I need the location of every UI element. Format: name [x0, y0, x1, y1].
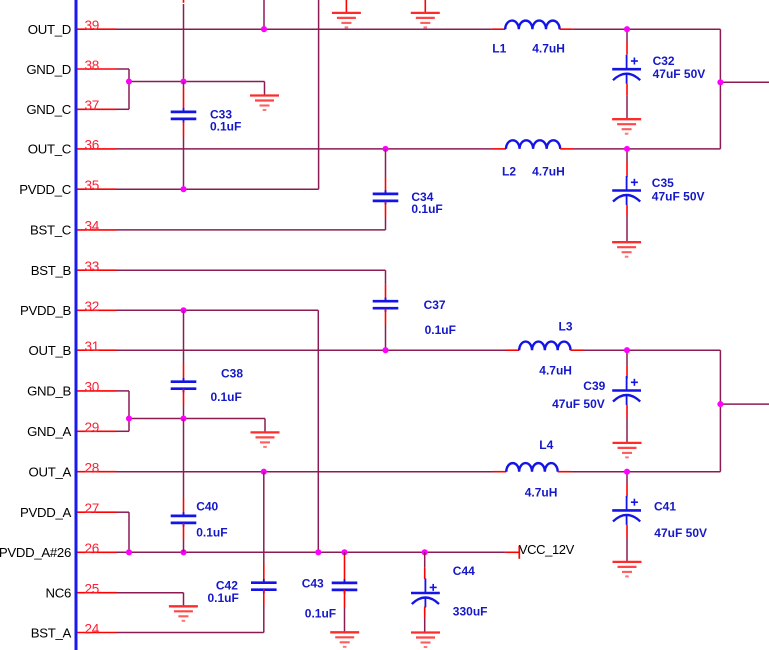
svg-text:47uF 50V: 47uF 50V: [552, 397, 605, 411]
capacitor C41 branch wire: [626, 472, 628, 484]
svg-text:OUT_D: OUT_D: [28, 22, 71, 37]
ground (GND_B/GND_A): [251, 432, 280, 447]
wire off-page tap (speaker -): [720, 403, 769, 405]
ground (NC6): [169, 606, 198, 621]
wire right bus OUT_B/OUT_A junction vertical: [719, 350, 721, 472]
wire pin38 corner: [117, 68, 130, 70]
pin 32 lead (PVDD_B): [78, 309, 117, 311]
wire PVDD_C row: [117, 188, 319, 190]
svg-text:PVDD_A#26: PVDD_A#26: [0, 545, 71, 560]
pin 33 lead (BST_B): [78, 269, 117, 271]
svg-text:BST_A: BST_A: [31, 625, 72, 640]
svg-text:GND_C: GND_C: [26, 102, 71, 117]
svg-text:PVDD_B: PVDD_B: [20, 303, 71, 318]
svg-text:35: 35: [85, 178, 100, 193]
svg-text:L2: L2: [502, 164, 516, 178]
capacitor C33 lower stub: [183, 122, 185, 137]
svg-text:28: 28: [85, 461, 100, 476]
junction at right tap: [717, 79, 723, 85]
svg-text:0.1uF: 0.1uF: [411, 202, 442, 216]
svg-text:31: 31: [85, 339, 100, 354]
inductor L1 left lead: [492, 28, 505, 30]
inductor L4 left lead: [493, 471, 506, 473]
svg-text:0.1uF: 0.1uF: [210, 120, 241, 134]
junction PVDD_C / C33: [180, 186, 186, 192]
svg-text:4.7uH: 4.7uH: [525, 485, 558, 499]
capacitor C38 lower stub: [183, 389, 185, 406]
svg-text:C32: C32: [653, 54, 675, 68]
svg-text:L1: L1: [492, 42, 506, 56]
junction GND row2 at corner column: [126, 415, 132, 421]
wire GND row (38/37 junction): [129, 81, 265, 83]
wire OUT_C row to L2: [117, 148, 493, 150]
svg-text:GND_D: GND_D: [26, 62, 71, 77]
junction OUT_C / C35: [624, 146, 630, 152]
svg-text:47uF 50V: 47uF 50V: [654, 526, 707, 540]
svg-text:C41: C41: [654, 499, 676, 513]
capacitor C38: [171, 378, 197, 392]
wire L1 out to C32 node: [573, 28, 721, 30]
wire BST_A row: [117, 632, 264, 634]
wire PVDD_C top vertical (to off-page): [318, 0, 320, 189]
ground (C39): [613, 443, 642, 458]
wire OUT_B row to L3: [117, 349, 507, 351]
C35 lower stub: [626, 205, 628, 216]
pin 35 lead (PVDD_C): [78, 188, 117, 190]
capacitor C39 (polarized): [612, 376, 641, 405]
junction PVDD_B / C38: [180, 307, 186, 313]
inductor L2: [506, 140, 560, 149]
ground (C32): [612, 119, 641, 134]
capacitor C44 (polarized): [411, 579, 440, 608]
inductor L4 right lead: [558, 471, 571, 473]
svg-text:GND_B: GND_B: [27, 384, 71, 399]
red stub tip of GND top vertical: [183, 0, 185, 3]
wire L3 out to C39 node: [584, 349, 721, 351]
svg-text:C38: C38: [221, 367, 243, 381]
inductor L1 right lead: [560, 28, 573, 30]
svg-text:47uF 50V: 47uF 50V: [652, 189, 705, 203]
wire OUT_D top vertical (to off-page bootstrap): [263, 0, 265, 29]
pin 31 lead (OUT_B): [78, 349, 117, 351]
svg-text:L3: L3: [559, 320, 573, 334]
junction OUT_D / top vertical: [261, 26, 267, 32]
wire GND net top vertical (to off-page): [183, 4, 185, 82]
svg-text:C35: C35: [652, 176, 674, 190]
svg-text:34: 34: [85, 219, 100, 234]
capacitor C35 branch wire: [626, 149, 628, 162]
inductor L2 right lead: [560, 148, 573, 150]
svg-text:24: 24: [85, 621, 100, 636]
wire L2 out to C35 node: [574, 148, 721, 150]
wire NC6 drop: [183, 593, 185, 606]
capacitor C38 upper stub: [183, 310, 185, 364]
capacitor C32 branch wire: [626, 29, 628, 42]
capacitor C33 upper stub: [183, 82, 185, 89]
svg-text:330uF: 330uF: [453, 605, 488, 619]
capacitor C42 lower stub: [263, 589, 265, 606]
svg-text:BST_C: BST_C: [30, 223, 72, 238]
wire pin29 corner: [117, 430, 130, 432]
capacitor C42 upper stub: [263, 472, 265, 564]
svg-text:0.1uF: 0.1uF: [208, 591, 239, 605]
inductor L3: [519, 342, 570, 351]
pin 26 lead (PVDD_A#26): [78, 551, 117, 553]
wire right bus OUT_D/OUT_C junction vertical: [719, 29, 721, 149]
svg-text:GND_A: GND_A: [27, 424, 71, 439]
ground (top-right, off-page stub): [424, 0, 426, 13]
wire PVDD_B row: [117, 309, 319, 311]
svg-text:4.7uH: 4.7uH: [539, 363, 572, 377]
capacitor C39 branch wire: [626, 350, 628, 366]
junction at right lower tap: [717, 401, 723, 407]
svg-text:C39: C39: [583, 379, 605, 393]
capacitor C41 (polarized): [612, 496, 641, 525]
svg-text:4.7uH: 4.7uH: [532, 164, 565, 178]
wire PVDD_A#26 row (VCC_12V net): [117, 551, 506, 553]
ground (C43): [330, 632, 359, 647]
svg-text:33: 33: [85, 259, 100, 274]
wire GND drop to ground: [264, 82, 266, 95]
svg-text:VCC_12V: VCC_12V: [519, 542, 575, 557]
svg-text:37: 37: [85, 98, 100, 113]
junction OUT_C / C34: [382, 146, 388, 152]
svg-text:0.1uF: 0.1uF: [196, 526, 227, 540]
C44 lower stub: [424, 607, 426, 619]
wire OUT_A row to L4: [117, 471, 494, 473]
ground (GND_D/GND_C): [250, 96, 279, 111]
wire NC6 row: [117, 592, 184, 594]
svg-text:0.1uF: 0.1uF: [425, 323, 456, 337]
inductor L2 left lead: [493, 148, 507, 150]
capacitor C34 lower stub: [385, 201, 387, 217]
pin 36 lead (OUT_C): [78, 148, 117, 150]
C39 lower stub: [626, 405, 628, 417]
wire pin37 corner: [117, 108, 130, 110]
capacitor C44 branch wire: [424, 552, 426, 567]
junction GND row2 at C38/C40 column: [180, 415, 186, 421]
C32 lower stub: [626, 84, 628, 96]
svg-text:PVDD_A: PVDD_A: [20, 505, 71, 520]
VCC_12V port bar: [518, 546, 520, 559]
svg-text:C37: C37: [424, 298, 446, 312]
junction OUT_A / C41: [624, 469, 630, 475]
pin 39 lead (OUT_D): [78, 28, 117, 30]
svg-text:OUT_C: OUT_C: [28, 142, 72, 157]
svg-text:29: 29: [85, 420, 100, 435]
svg-text:27: 27: [85, 501, 100, 516]
svg-text:36: 36: [85, 138, 100, 153]
svg-text:OUT_A: OUT_A: [29, 465, 72, 480]
svg-text:NC6: NC6: [46, 586, 71, 601]
C41 lower stub: [626, 525, 628, 537]
capacitor C37 lower stub: [385, 309, 387, 325]
capacitor C34 upper stub: [385, 149, 387, 177]
capacitor C34: [373, 190, 399, 204]
wire GND row 2 (30/29 junction): [129, 418, 265, 420]
pin 37 lead (GND_C): [78, 108, 117, 110]
svg-text:32: 32: [85, 299, 100, 314]
wire GND drop 2: [264, 419, 266, 432]
svg-text:PVDD_C: PVDD_C: [19, 182, 71, 197]
inductor L1: [505, 21, 559, 30]
capacitor C40 upper stub: [183, 419, 185, 499]
capacitor C37 upper stub: [385, 270, 387, 284]
junction OUT_D / C32: [624, 26, 630, 32]
wire L4 out to C41 node: [571, 471, 720, 473]
capacitor C43 lower stub: [344, 590, 346, 607]
svg-text:25: 25: [85, 582, 100, 597]
svg-text:4.7uH: 4.7uH: [532, 42, 565, 56]
capacitor C32 (polarized): [612, 55, 641, 84]
junction VCC row / C44: [422, 549, 428, 555]
inductor L3 left lead: [506, 349, 519, 351]
ground (C44): [411, 633, 440, 648]
pin 34 lead (BST_C): [78, 229, 117, 231]
junction GND row at C33 column: [180, 78, 186, 84]
junction VCC row / pin27 column: [126, 549, 132, 555]
pin 25 lead (NC6): [78, 592, 117, 594]
capacitor C33: [171, 108, 197, 122]
pin 38 lead (GND_D): [78, 68, 117, 70]
pin 27 lead (PVDD_A): [78, 511, 117, 513]
ground (C41): [613, 562, 642, 577]
junction OUT_B / C37: [382, 347, 388, 353]
wire PVDD_B vertical to VCC row: [317, 310, 319, 552]
ground (C35): [612, 242, 641, 257]
svg-text:L4: L4: [539, 438, 553, 452]
capacitor C35 (polarized): [612, 176, 641, 205]
wire pin30 corner: [117, 390, 130, 392]
wire BST_B row: [117, 269, 386, 271]
VCC_12V port lead: [505, 551, 519, 553]
capacitor C43: [332, 579, 358, 593]
junction VCC row / C40: [180, 549, 186, 555]
svg-text:0.1uF: 0.1uF: [305, 607, 336, 621]
svg-text:C44: C44: [453, 564, 475, 578]
svg-text:39: 39: [85, 18, 100, 33]
wire off-page tap (speaker +): [720, 81, 769, 83]
pin 29 lead (GND_A): [78, 430, 117, 432]
svg-text:38: 38: [85, 58, 100, 73]
ground (top-left, off-page stub): [345, 0, 347, 13]
svg-text:BST_B: BST_B: [31, 263, 72, 278]
svg-text:47uF 50V: 47uF 50V: [653, 67, 706, 81]
pin 30 lead (GND_B): [78, 390, 117, 392]
wire BST_C row: [117, 229, 386, 231]
capacitor C42: [251, 579, 277, 593]
wire PVDD_A corner: [117, 511, 130, 513]
capacitor C40: [171, 512, 197, 526]
svg-text:C40: C40: [196, 500, 218, 514]
junction OUT_B / C39: [624, 347, 630, 353]
svg-text:0.1uF: 0.1uF: [211, 390, 242, 404]
junction VCC row / C43: [341, 549, 347, 555]
pin 28 lead (OUT_A): [78, 471, 117, 473]
junction GND row at corner column: [126, 78, 132, 84]
svg-text:C43: C43: [302, 576, 324, 590]
junction VCC row / PVDD_B vertical: [315, 549, 321, 555]
svg-text:OUT_B: OUT_B: [29, 343, 72, 358]
IC left-edge (U1 amplifier IC boundary): [75, 0, 78, 650]
junction OUT_A / C42: [261, 469, 267, 475]
svg-text:26: 26: [85, 541, 100, 556]
capacitor C40 lower stub: [183, 523, 185, 540]
wire OUT_D row to L1: [117, 28, 492, 30]
inductor L3 right lead: [571, 349, 584, 351]
capacitor C37: [373, 298, 399, 312]
capacitor C43 upper stub: [344, 552, 346, 556]
pin 24 lead (BST_A): [78, 632, 117, 634]
svg-text:30: 30: [85, 380, 100, 395]
inductor L4: [506, 463, 557, 472]
